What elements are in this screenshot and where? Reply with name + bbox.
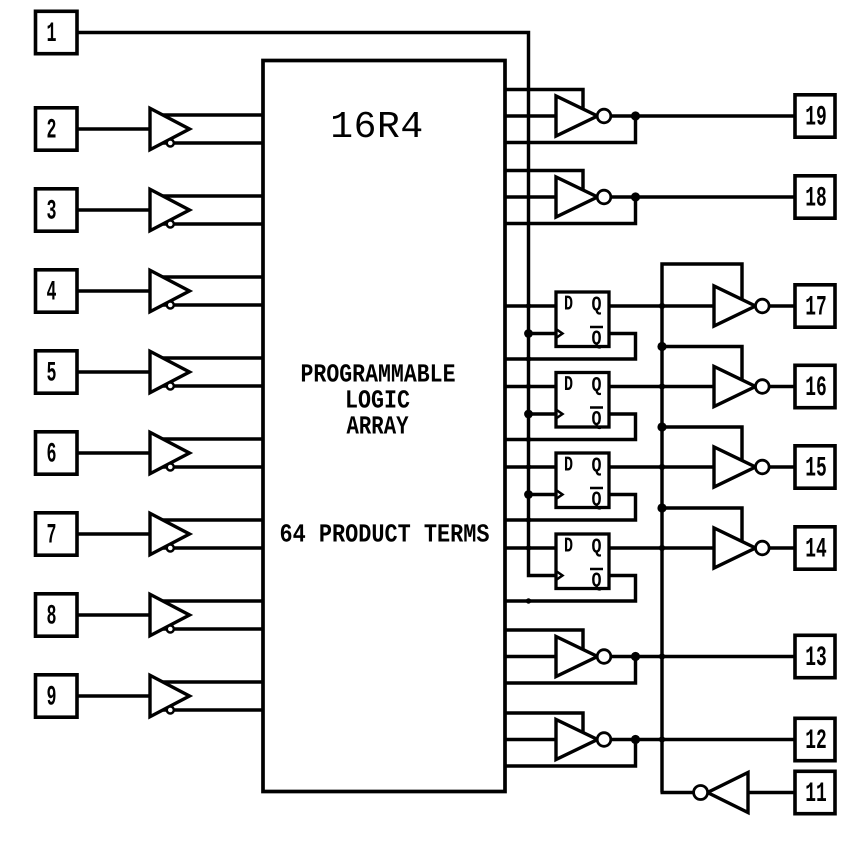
svg-text:64 PRODUCT TERMS: 64 PRODUCT TERMS xyxy=(280,520,490,550)
svg-text:Q: Q xyxy=(592,456,602,479)
svg-text:18: 18 xyxy=(805,184,827,215)
svg-text:Q: Q xyxy=(592,295,602,318)
svg-text:5: 5 xyxy=(47,359,57,390)
svg-text:Q: Q xyxy=(592,329,602,352)
svg-text:13: 13 xyxy=(805,643,827,674)
svg-text:11: 11 xyxy=(805,779,827,810)
svg-text:Q: Q xyxy=(592,375,602,398)
svg-text:4: 4 xyxy=(47,278,57,309)
svg-text:3: 3 xyxy=(47,197,57,228)
svg-text:9: 9 xyxy=(47,683,57,714)
svg-text:17: 17 xyxy=(805,293,827,324)
svg-text:7: 7 xyxy=(47,521,57,552)
svg-text:8: 8 xyxy=(47,602,57,633)
svg-text:D: D xyxy=(564,455,573,478)
svg-text:14: 14 xyxy=(805,535,827,566)
svg-text:6: 6 xyxy=(47,440,57,471)
svg-text:Q: Q xyxy=(592,571,602,594)
svg-text:D: D xyxy=(564,536,573,559)
svg-text:19: 19 xyxy=(805,103,827,134)
svg-text:D: D xyxy=(564,374,573,397)
svg-text:1: 1 xyxy=(47,19,57,50)
svg-text:Q: Q xyxy=(592,537,602,560)
svg-text:16R4: 16R4 xyxy=(330,106,424,149)
svg-text:Q: Q xyxy=(592,409,602,432)
svg-text:16: 16 xyxy=(805,373,827,404)
svg-text:2: 2 xyxy=(47,116,57,147)
svg-text:Q: Q xyxy=(592,490,602,513)
svg-text:15: 15 xyxy=(805,454,827,485)
svg-text:ARRAY: ARRAY xyxy=(347,412,409,442)
svg-text:D: D xyxy=(564,294,573,317)
svg-text:12: 12 xyxy=(805,726,827,757)
